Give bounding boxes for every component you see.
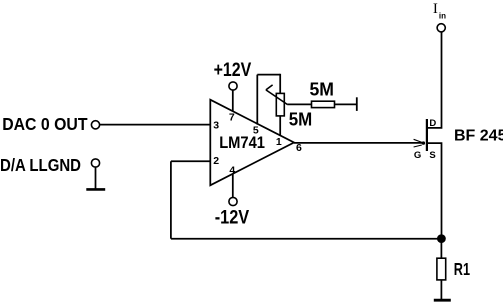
svg-text:LM741: LM741 xyxy=(219,134,265,152)
wire DAC0OUT to pin3 xyxy=(100,124,211,126)
svg-text:3: 3 xyxy=(213,120,219,132)
wire pot top lead xyxy=(279,74,281,94)
gate arrowhead xyxy=(414,139,423,142)
svg-text:5M: 5M xyxy=(310,79,335,99)
wire pot bottom lead to pin1 xyxy=(279,116,281,136)
svg-text:1: 1 xyxy=(276,136,282,148)
resistor R1 body xyxy=(437,258,446,280)
ground LLGND bar xyxy=(86,188,105,191)
op-amp U1 LM741 triangle xyxy=(210,100,294,186)
terminal bar xyxy=(356,97,358,111)
wire feedback left vertical xyxy=(170,161,172,238)
wire pin7 to +12V xyxy=(232,90,234,111)
svg-text:R1: R1 xyxy=(454,259,470,279)
wire pin5 up xyxy=(256,75,258,125)
resistor 5M body xyxy=(312,101,335,107)
wire wiper to R 5M xyxy=(287,103,311,105)
svg-text:+12V: +12V xyxy=(214,60,252,81)
wire 5M to terminal xyxy=(335,103,357,105)
svg-text:BF 245: BF 245 xyxy=(454,128,503,145)
terminal DAC 0 OUT (open circle) xyxy=(91,121,99,129)
wire op-amp output to gate xyxy=(294,142,424,144)
svg-text:D: D xyxy=(429,118,436,129)
wire pin2 to feedback xyxy=(171,160,210,162)
svg-text:5M: 5M xyxy=(289,109,313,129)
svg-text:DAC 0 OUT: DAC 0 OUT xyxy=(2,114,88,134)
wire junction to R1 xyxy=(440,239,442,259)
svg-text:I: I xyxy=(433,1,438,17)
svg-text:S: S xyxy=(429,150,435,161)
wire R1 to ground xyxy=(440,280,442,300)
svg-text:D/A LLGND: D/A LLGND xyxy=(0,155,81,175)
transistor drain lead xyxy=(427,32,442,128)
potentiometer wiper arrow xyxy=(266,90,288,105)
wire LLGND down xyxy=(95,167,97,189)
terminal -12V (open circle) xyxy=(229,197,237,205)
svg-text:2: 2 xyxy=(213,155,219,167)
junction node (source/feedback/R1) xyxy=(437,234,446,243)
potentiometer P1 body xyxy=(276,93,284,116)
terminal I_in (open circle) xyxy=(437,24,445,32)
transistor source lead xyxy=(427,143,442,239)
wire pin4 to -12V xyxy=(232,174,234,198)
wire pot loop top xyxy=(257,74,280,76)
terminal +12V (open circle) xyxy=(229,82,237,90)
svg-text:-12V: -12V xyxy=(215,208,250,229)
transistor Q1 BF245 channel bar xyxy=(426,119,428,151)
ground bar bottom xyxy=(434,299,451,302)
wire feedback bottom horizontal xyxy=(171,238,442,240)
svg-text:G: G xyxy=(414,150,421,161)
svg-text:in: in xyxy=(439,12,446,21)
svg-text:7: 7 xyxy=(229,111,235,123)
svg-text:5: 5 xyxy=(253,125,259,137)
terminal D/A LLGND (open circle) xyxy=(91,159,99,167)
